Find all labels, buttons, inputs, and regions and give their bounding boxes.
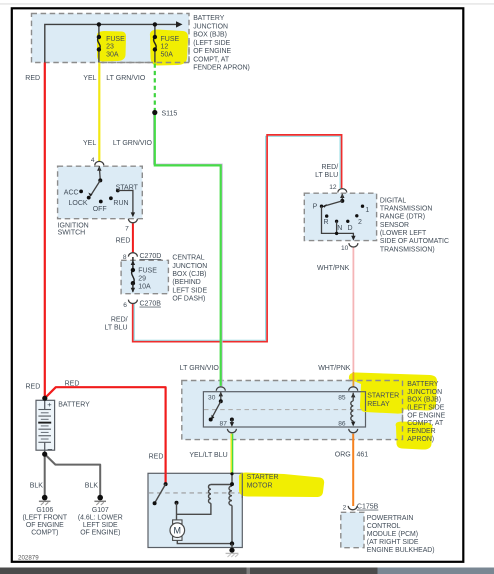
svg-text:RED: RED [25,75,40,82]
svg-text:12: 12 [329,184,337,191]
svg-text:LT BLU: LT BLU [315,172,338,179]
svg-text:BLK: BLK [85,483,99,490]
svg-text:(4.6L: LOWER: (4.6L: LOWER [78,515,123,522]
svg-text:OF DASH): OF DASH) [172,296,205,303]
svg-text:S115: S115 [162,110,178,117]
svg-text:23: 23 [106,44,114,51]
svg-text:N: N [337,225,342,232]
svg-text:G107: G107 [92,507,109,514]
svg-text:MOTOR: MOTOR [247,482,273,489]
svg-text:LEFT SIDE: LEFT SIDE [172,287,207,294]
svg-text:4: 4 [91,157,95,164]
svg-text:G106: G106 [36,507,53,514]
svg-text:TRANSMISSION: TRANSMISSION [380,206,432,213]
svg-text:C270B: C270B [140,301,162,308]
svg-text:FUSE: FUSE [161,36,180,43]
svg-text:SENSOR: SENSOR [380,222,409,229]
svg-text:RED: RED [26,384,41,391]
svg-text:MODULE (PCM): MODULE (PCM) [367,531,418,538]
svg-text:LT GRN/VIO: LT GRN/VIO [180,365,220,372]
svg-text:BATTERY: BATTERY [407,381,439,388]
svg-text:R: R [323,219,328,226]
svg-text:10: 10 [341,245,349,252]
svg-text:ENGINE BULKHEAD): ENGINE BULKHEAD) [367,547,435,554]
svg-text:STARTER: STARTER [247,474,279,481]
svg-text:87: 87 [220,420,228,427]
svg-text:29: 29 [138,276,146,283]
svg-text:FUSE: FUSE [138,268,157,275]
svg-text:FENDER: FENDER [407,428,435,435]
svg-text:APRON): APRON) [407,436,434,443]
svg-text:50A: 50A [161,51,174,58]
svg-text:461: 461 [357,451,369,458]
svg-text:BOX (CJB): BOX (CJB) [172,271,206,278]
svg-text:ACC: ACC [64,190,79,197]
svg-text:M: M [174,526,182,536]
svg-text:LEFT SIDE: LEFT SIDE [83,522,118,529]
svg-text:WHT/PNK: WHT/PNK [317,265,350,272]
svg-text:RED/: RED/ [321,164,338,171]
svg-text:SIDE OF AUTOMATIC: SIDE OF AUTOMATIC [380,238,449,245]
svg-text:BLK: BLK [30,483,44,490]
svg-text:FENDER APRON): FENDER APRON) [193,65,250,72]
svg-text:COMPT, AT: COMPT, AT [193,56,230,63]
svg-text:RUN: RUN [113,200,128,207]
svg-text:JUNCTION: JUNCTION [193,23,228,30]
svg-text:START: START [116,185,139,192]
svg-text:YEL: YEL [83,75,96,82]
svg-text:30A: 30A [106,51,119,58]
svg-text:OF ENGINE: OF ENGINE [26,522,64,529]
svg-text:D: D [348,225,353,232]
svg-text:BOX (BJB): BOX (BJB) [407,397,441,404]
svg-text:(LEFT FRONT: (LEFT FRONT [22,515,67,522]
svg-text:+: + [47,400,52,409]
svg-text:OF ENGINE: OF ENGINE [193,48,231,55]
svg-text:86: 86 [338,420,346,427]
svg-text:6: 6 [123,302,127,309]
svg-text:2: 2 [343,504,347,511]
svg-text:(LOWER LEFT: (LOWER LEFT [380,230,427,237]
svg-text:TRANSMISSION): TRANSMISSION) [380,246,435,253]
svg-text:COMPT): COMPT) [31,529,58,536]
svg-text:RANGE (DTR): RANGE (DTR) [380,214,425,221]
svg-text:COMPT, AT: COMPT, AT [407,420,444,427]
svg-text:–: – [48,444,53,453]
svg-text:OFF: OFF [93,206,107,213]
svg-text:(LEFT SIDE: (LEFT SIDE [193,40,230,47]
svg-text:WHT/PNK: WHT/PNK [318,365,351,372]
svg-text:LT GRN/VIO: LT GRN/VIO [113,140,153,147]
svg-text:2: 2 [358,219,362,226]
svg-text:DIGITAL: DIGITAL [380,197,406,204]
svg-text:LT GRN/VIO: LT GRN/VIO [106,75,146,82]
svg-text:10A: 10A [138,283,151,290]
svg-text:CONTROL: CONTROL [367,523,401,530]
svg-text:YEL: YEL [83,140,96,147]
svg-text:202879: 202879 [18,554,39,561]
svg-text:IGNITION: IGNITION [58,222,89,229]
svg-text:30: 30 [208,395,216,402]
svg-text:JUNCTION: JUNCTION [407,389,442,396]
svg-text:(LEFT SIDE: (LEFT SIDE [407,404,444,411]
svg-text:85: 85 [338,395,346,402]
svg-text:C175B: C175B [357,504,379,511]
svg-text:SWITCH: SWITCH [58,230,86,237]
svg-text:STARTER: STARTER [367,393,399,400]
svg-text:FUSE: FUSE [106,36,125,43]
svg-text:LT BLU: LT BLU [105,324,128,331]
svg-text:YEL/LT BLU: YEL/LT BLU [189,452,227,459]
svg-text:1: 1 [365,207,369,214]
svg-text:8: 8 [123,254,127,261]
svg-text:(BEHIND: (BEHIND [172,279,200,286]
svg-text:OF ENGINE): OF ENGINE) [80,529,120,536]
svg-text:LOCK: LOCK [69,200,88,207]
svg-text:ORG: ORG [335,451,351,458]
svg-text:RED: RED [149,453,164,460]
svg-text:CENTRAL: CENTRAL [172,255,204,262]
svg-text:BATTERY: BATTERY [193,15,225,22]
svg-text:(AT RIGHT SIDE: (AT RIGHT SIDE [367,539,419,546]
svg-text:C270D: C270D [140,253,162,260]
svg-text:12: 12 [161,44,169,51]
svg-text:RED: RED [116,237,131,244]
svg-text:BOX (BJB): BOX (BJB) [193,32,227,39]
svg-text:RED: RED [65,381,80,388]
svg-text:POWERTRAIN: POWERTRAIN [367,515,414,522]
svg-text:JUNCTION: JUNCTION [172,263,207,270]
svg-text:RELAY: RELAY [367,401,390,408]
svg-text:BATTERY: BATTERY [58,402,90,409]
svg-text:7: 7 [125,226,129,233]
svg-text:RED/: RED/ [111,317,128,324]
svg-text:OF ENGINE: OF ENGINE [407,412,445,419]
svg-text:P: P [313,204,318,211]
